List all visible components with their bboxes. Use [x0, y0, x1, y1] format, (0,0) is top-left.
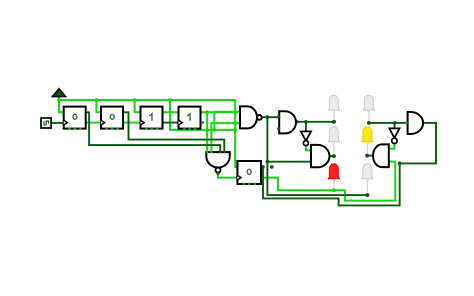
wire NANDh in2 feed [211, 123, 239, 152]
node bus dots [57, 98, 336, 192]
and gate A4 (west facing) [373, 144, 389, 167]
wire LED4 feed [369, 122, 407, 124]
LED row2 col1 (off) [328, 127, 339, 156]
wire NAND-down output to FF5 clock [218, 174, 237, 178]
and gate A1 [277, 111, 296, 133]
flip-flop FF2 [101, 107, 123, 130]
wire drop x170 [170, 100, 235, 130]
clock input [41, 118, 51, 128]
wire INV1 out to A2 [306, 146, 311, 151]
wire clock chain 2 [123, 122, 140, 124]
nand gate NAND-h [240, 106, 262, 128]
nand gate NAND-down (4 input) [206, 151, 230, 174]
wire NANDh output to A1 [262, 116, 279, 118]
wire to A2 in2 [267, 161, 311, 163]
wire Q4 down [202, 111, 236, 113]
wire Q3 to D4 [162, 111, 179, 113]
LED row1 col1 (off) [328, 95, 339, 122]
wire Q2 to NAND-down in4 [123, 112, 224, 152]
LED row2 col2 (yellow on) [362, 127, 373, 156]
wire INV2 input branch [394, 123, 396, 129]
wire NANDh output down [267, 118, 367, 196]
inverter INV2 [389, 128, 399, 143]
wire A2 out [329, 155, 334, 157]
inverter INV1 [301, 131, 311, 145]
wire Q5bar bottom bus [261, 162, 395, 201]
node dark dots [261, 115, 401, 197]
pin nubs [50, 111, 390, 179]
wire A3 out staircase [263, 123, 436, 205]
wire Q1 to NAND-down in3 [86, 112, 221, 152]
wire drop D2 [96, 100, 101, 112]
wire top bus [59, 100, 237, 167]
wire A4 out to yellow LED [367, 155, 374, 157]
and gate A3 [405, 112, 423, 134]
wire drop D3 [135, 100, 141, 112]
wire NANDh in1 feed [214, 112, 239, 130]
flip-flop FF5 [237, 161, 261, 185]
wire clock to FF1 [51, 122, 64, 124]
flip-flop FF3 [141, 107, 163, 130]
wire clock chain 1 [86, 122, 101, 124]
power symbol [53, 89, 66, 97]
LED row3 col2 (off) [362, 164, 373, 195]
wire clock chain 3 [162, 122, 179, 124]
flip-flop FF1 [64, 107, 86, 130]
wire INV2 out to A4 [389, 144, 395, 149]
LED row3 col1 (red on) [328, 164, 339, 190]
wire power stem [58, 96, 60, 100]
stem end junction dots (top layer) [332, 120, 371, 197]
wire A1 out to LED1 [296, 121, 334, 123]
LED row1 col2 (off) [363, 95, 374, 123]
wire INV1 input branch [305, 122, 307, 132]
wire drop D1 [59, 100, 64, 112]
flip-flop FF4 [179, 107, 204, 130]
and gate A2 [311, 145, 330, 167]
